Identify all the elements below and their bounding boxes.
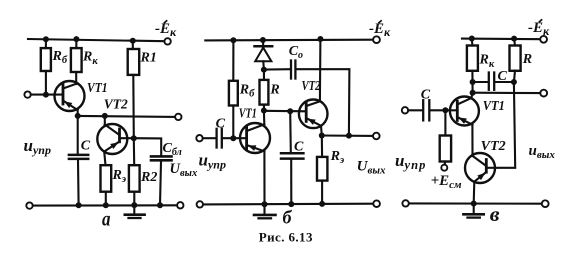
node dot C2 tap b bbox=[287, 108, 293, 114]
svg-text:иупр: иупр bbox=[24, 136, 51, 157]
wire VT1 emitter to VT2 base v bbox=[471, 125, 473, 156]
node dot C right v bbox=[511, 79, 517, 85]
resistor Re b bbox=[317, 157, 327, 181]
wire top rail a bbox=[28, 39, 164, 41]
svg-text:б: б bbox=[283, 208, 293, 229]
svg-text:R: R bbox=[269, 83, 279, 98]
node dot rail/RK v bbox=[469, 36, 475, 42]
label -Ek a bbox=[155, 20, 177, 39]
capacitor Cbl a bbox=[151, 156, 172, 160]
svg-text:+Есм: +Есм bbox=[431, 173, 462, 191]
svg-text:R1: R1 bbox=[140, 51, 157, 66]
terminal input v bbox=[402, 107, 408, 113]
wire input to VT1 base a bbox=[31, 94, 63, 96]
node dot VT1 collector v bbox=[470, 90, 476, 96]
terminal bottom-left b bbox=[197, 201, 203, 207]
svg-text:VT1: VT1 bbox=[239, 107, 257, 122]
wire R1 top lead a bbox=[132, 41, 134, 49]
transistor VT2 v bbox=[465, 153, 495, 183]
svg-text:Uвых: Uвых bbox=[357, 159, 386, 177]
wire R1 bottom long lead a bbox=[132, 75, 135, 138]
node dot VT1 collector/VT2 base b bbox=[261, 108, 267, 114]
node dot base/RB b bbox=[230, 135, 236, 141]
wire Re bottom lead a bbox=[105, 192, 107, 206]
wire emitter bus to output a bbox=[78, 116, 176, 117]
transistor VT2 a bbox=[97, 124, 134, 154]
wire Re top lead b bbox=[321, 136, 323, 157]
terminal output b bbox=[373, 133, 380, 140]
resistor RB a bbox=[41, 48, 51, 71]
wire input to cap v bbox=[408, 109, 422, 111]
terminal output v bbox=[540, 90, 547, 97]
svg-text:R2: R2 bbox=[140, 170, 157, 185]
diode VD b bbox=[255, 40, 273, 70]
capacitor C a bbox=[69, 116, 88, 205]
wire R2 top lead a bbox=[133, 138, 135, 165]
capacitor C input v bbox=[423, 100, 457, 120]
wire RB bottom lead b bbox=[232, 106, 234, 139]
wire VT2 emitter lead b bbox=[320, 126, 323, 136]
node dot rail/Cbl a bbox=[157, 202, 163, 208]
svg-text:а: а bbox=[102, 207, 111, 231]
svg-text:VT2: VT2 bbox=[104, 98, 128, 113]
svg-text:Сбл: Сбл bbox=[163, 141, 182, 158]
wire collector to Cbl a bbox=[134, 138, 161, 155]
capacitor C input b bbox=[217, 129, 247, 148]
wire VT2 collector to rail b bbox=[319, 39, 322, 101]
ground a bbox=[125, 205, 145, 218]
node dot rail/RB b bbox=[230, 37, 236, 43]
wire R top lead b bbox=[263, 70, 265, 80]
node dot rail/RK a bbox=[73, 36, 79, 42]
wire R top lead v bbox=[513, 39, 516, 46]
svg-text:иупр: иупр bbox=[199, 151, 226, 172]
wire bottom rail b bbox=[203, 203, 373, 206]
node dot base/RB a bbox=[43, 92, 49, 98]
capacitor C v bbox=[473, 73, 514, 90]
wire RB top lead b bbox=[232, 40, 234, 81]
terminal bottom-right v bbox=[542, 200, 549, 207]
resistor R b bbox=[260, 80, 269, 105]
terminal input a bbox=[24, 91, 30, 97]
wire RK bottom lead v bbox=[471, 71, 473, 93]
terminal -Ek v bbox=[540, 36, 547, 43]
svg-text:Со: Со bbox=[289, 44, 303, 61]
resistor R2 a bbox=[129, 165, 140, 192]
node dot rail/RB a bbox=[43, 36, 49, 42]
wire Re bottom lead b bbox=[321, 181, 323, 204]
svg-text:Rэ: Rэ bbox=[330, 149, 345, 166]
node dot rail/diode b bbox=[260, 37, 266, 43]
terminal -Ek b bbox=[373, 36, 380, 43]
wire VT1 emitter lead a bbox=[77, 110, 79, 116]
svg-text:-Eк: -Eк bbox=[155, 21, 177, 39]
node dot VT2 collector/R1/R2 a bbox=[131, 135, 137, 141]
svg-text:VT1: VT1 bbox=[483, 99, 505, 114]
node dot VT2 base tap a bbox=[102, 113, 108, 119]
ground v bbox=[463, 204, 483, 218]
svg-text:Uвых: Uвых bbox=[170, 161, 198, 179]
wire bottom rail a bbox=[33, 204, 178, 206]
terminal bottom-left a bbox=[26, 202, 32, 208]
wire VT2 base b bbox=[264, 110, 306, 113]
wire RK top lead a bbox=[75, 39, 77, 48]
wire VT1 collector lead v bbox=[471, 93, 472, 98]
node dot rail/VT1 emitter b bbox=[262, 201, 268, 207]
svg-text:C: C bbox=[421, 88, 431, 103]
svg-text:-Eк: -Eк bbox=[369, 21, 391, 39]
node dot rail/C2 b bbox=[288, 201, 294, 207]
resistor RB b bbox=[229, 81, 238, 106]
resistor RK a bbox=[71, 48, 82, 72]
resistor Re a bbox=[101, 165, 112, 192]
svg-text:ивых: ивых bbox=[529, 143, 556, 161]
terminal bottom-right a bbox=[177, 202, 183, 208]
wire R bottom lead b bbox=[263, 105, 265, 111]
resistor R v bbox=[510, 46, 521, 71]
svg-text:в: в bbox=[490, 202, 500, 226]
node dot rail/R2/gnd a bbox=[131, 202, 137, 208]
wire RK top lead v bbox=[471, 39, 474, 46]
svg-text:C: C bbox=[81, 139, 91, 154]
node dot Co bootstrap b bbox=[346, 133, 352, 139]
terminal bottom-right b bbox=[373, 200, 380, 207]
svg-text:-Eк: -Eк bbox=[528, 20, 550, 38]
terminal bottom-left v bbox=[402, 200, 408, 206]
wire bottom rail v bbox=[409, 202, 542, 204]
svg-text:R: R bbox=[522, 52, 532, 67]
node dot rail/Re a bbox=[103, 202, 109, 208]
node dot rail/VT2 collector b bbox=[317, 36, 323, 42]
capacitor Co b bbox=[264, 61, 350, 136]
node dot emitter out b bbox=[319, 133, 325, 139]
terminal output top a bbox=[175, 114, 181, 120]
svg-text:Rк: Rк bbox=[82, 50, 98, 68]
node dot rail/Re b bbox=[319, 201, 325, 207]
svg-text:C: C bbox=[294, 140, 304, 155]
wire Cbl bottom lead a bbox=[160, 162, 161, 206]
wire VT1 collector lead b bbox=[263, 111, 265, 125]
wire VT2 emitter lead v bbox=[473, 182, 476, 204]
wire RB top lead a bbox=[45, 39, 47, 48]
wire VT2 base drop a bbox=[104, 116, 106, 125]
wire R2 bottom lead a bbox=[133, 192, 135, 205]
transistor VT1 a bbox=[55, 81, 85, 111]
svg-text:Рис. 6.13: Рис. 6.13 bbox=[259, 230, 313, 245]
node dot base/bias v bbox=[442, 107, 448, 113]
node dot rail/C a bbox=[76, 202, 82, 208]
transistor VT1 b bbox=[240, 123, 270, 153]
terminal -Ek a bbox=[164, 38, 170, 44]
ground b bbox=[254, 204, 276, 218]
node dot C left v bbox=[470, 79, 476, 85]
transistor VT2 b bbox=[299, 100, 328, 129]
svg-text:VT2: VT2 bbox=[481, 139, 506, 154]
resistor R1 a bbox=[128, 49, 140, 75]
label -Ek b bbox=[369, 20, 391, 39]
node dot rail/VT2 emitter v bbox=[471, 201, 477, 207]
node dot rail/R1 a bbox=[130, 38, 136, 44]
node dot VT1 emitter a bbox=[75, 113, 81, 119]
wire output v bbox=[473, 92, 541, 95]
wire R bottom to VT2 collector v bbox=[495, 71, 515, 168]
resistor bias v bbox=[440, 110, 451, 164]
label -Ek v bbox=[528, 19, 550, 38]
wire top rail v bbox=[462, 38, 540, 41]
wire input to cap b bbox=[203, 137, 216, 139]
terminal +Ecm v bbox=[441, 165, 447, 171]
resistor RK v bbox=[467, 46, 478, 71]
svg-text:Rэ: Rэ bbox=[112, 168, 127, 185]
wire VT1 emitter to rail b bbox=[263, 151, 265, 204]
wire output b bbox=[322, 134, 373, 136]
svg-text:Rк: Rк bbox=[479, 53, 495, 71]
wire RB bottom lead a bbox=[45, 71, 47, 95]
node dot rail/R v bbox=[511, 36, 517, 42]
svg-text:VT1: VT1 bbox=[87, 81, 108, 96]
node dot diode/R/Co b bbox=[261, 67, 267, 73]
svg-text:Rб: Rб bbox=[239, 83, 255, 100]
svg-text:C: C bbox=[498, 69, 508, 84]
wire VT2 emitter lead a bbox=[104, 152, 105, 166]
svg-text:Rб: Rб bbox=[52, 49, 68, 66]
wire RK bottom lead / VT1 collector a bbox=[75, 72, 77, 84]
capacitor C2 b bbox=[281, 111, 303, 204]
transistor VT1 v bbox=[450, 97, 479, 126]
terminal input b bbox=[196, 135, 202, 141]
wire top rail b bbox=[205, 39, 373, 42]
svg-text:С: С bbox=[216, 117, 226, 132]
svg-text:иупр: иупр bbox=[395, 151, 427, 172]
svg-text:VT2: VT2 bbox=[302, 79, 321, 94]
